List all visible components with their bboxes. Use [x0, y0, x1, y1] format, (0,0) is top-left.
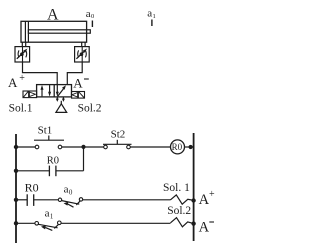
svg-text:Sol. 1: Sol. 1 [163, 182, 190, 194]
contact R0 (rung2) [27, 194, 34, 206]
limit switch contact a1 [35, 221, 61, 230]
junction dot rail-left branch [14, 169, 18, 173]
valve V1 right position flow arrows [56, 85, 66, 97]
svg-text:A: A [73, 76, 83, 91]
junction dot rail-right rung1 [189, 145, 193, 149]
wire rung1 segment c [130, 146, 170, 148]
cylinder A rod [28, 30, 90, 33]
solenoid coil Sol.1 (zigzag) [171, 195, 194, 204]
pushbutton St2 (NC) [103, 140, 132, 149]
cylinder A piston [24, 21, 26, 42]
svg-text:+: + [209, 189, 215, 200]
wire rung1 segment a [16, 146, 37, 148]
svg-text:St2: St2 [111, 129, 126, 141]
limit switch contact a0 [58, 198, 82, 208]
wire rung2 segment b [34, 199, 59, 201]
svg-text:Sol.2: Sol.2 [78, 103, 102, 115]
svg-text:A: A [199, 220, 210, 236]
wire: cylinder right port stub [82, 42, 85, 46]
wire branch vertical [83, 147, 85, 171]
svg-text:A: A [199, 192, 210, 208]
label A- (valve right) [73, 76, 89, 91]
wire rung3 segment b [61, 222, 171, 224]
label A+ (valve left) [8, 73, 25, 90]
position marker a0 [86, 8, 94, 27]
wire rung2 segment a [16, 199, 27, 201]
solenoid actuator Sol.1 (left, box with diagonal + pilot triangle) [23, 91, 37, 98]
svg-text:0: 0 [91, 13, 94, 20]
wire: pipe FC1 to valve port (left working line) [23, 62, 58, 85]
label A+ (output rung2) [199, 189, 215, 208]
junction dot rail-right rung2 [191, 198, 195, 202]
cylinder A body [21, 21, 87, 42]
wire branch segment b [56, 170, 84, 172]
svg-text:R0: R0 [25, 180, 39, 194]
svg-text:+: + [19, 73, 25, 84]
wire: pipe FC2 to valve port (right working line) [67, 62, 82, 85]
junction dot rung1-branch [81, 145, 85, 149]
label A- (output rung3) [199, 220, 214, 236]
flow control valve FC1 (left) [15, 47, 30, 62]
svg-text:Sol.2: Sol.2 [167, 205, 191, 217]
svg-text:a: a [45, 208, 50, 220]
label a1 (rung3) [45, 208, 54, 221]
svg-text:1: 1 [153, 13, 156, 20]
svg-text:R0: R0 [47, 155, 59, 166]
flow control valve FC2 (right) [75, 47, 90, 62]
position marker a1 [147, 8, 155, 27]
svg-text:St1: St1 [38, 124, 53, 136]
svg-text:Sol.1: Sol.1 [9, 103, 33, 115]
air supply triangle (port 1) [56, 101, 67, 113]
valve V1 left position flow arrows [41, 85, 52, 97]
solenoid actuator Sol.2 (right, pilot triangle + box with diagonal) [72, 92, 85, 99]
relay coil R0 [171, 140, 185, 154]
exhaust arrow (port 5) [56, 97, 59, 102]
wire branch segment a [16, 170, 49, 172]
ladder right rail [193, 133, 195, 241]
svg-text:A: A [8, 75, 18, 90]
valve V1 5/2 body [37, 85, 72, 97]
svg-text:0: 0 [69, 189, 73, 197]
svg-text:R0: R0 [172, 142, 183, 152]
wire rung1 segment b [62, 146, 104, 148]
junction dot rail-right rung3 [191, 221, 195, 225]
wire rung3 segment a [16, 222, 35, 224]
wire coil to right rail [185, 146, 194, 148]
ladder left rail [15, 134, 17, 243]
pushbutton St1 (NO) [34, 136, 64, 149]
svg-text:1: 1 [50, 213, 54, 221]
contact R0 (seal-in) [49, 166, 56, 177]
exhaust arrow (port 3) [62, 97, 65, 102]
wire: cylinder left port stub [22, 42, 25, 46]
junction dot rail-left rung3 [14, 221, 18, 225]
junction dot rail-left rung2 [14, 198, 18, 202]
label a0 (rung2) [64, 183, 73, 196]
junction dot rail-left rung1 [14, 145, 18, 149]
wire rung2 segment c [83, 199, 171, 201]
svg-text:a: a [64, 183, 69, 195]
solenoid coil Sol.2 (zigzag) [171, 218, 194, 227]
